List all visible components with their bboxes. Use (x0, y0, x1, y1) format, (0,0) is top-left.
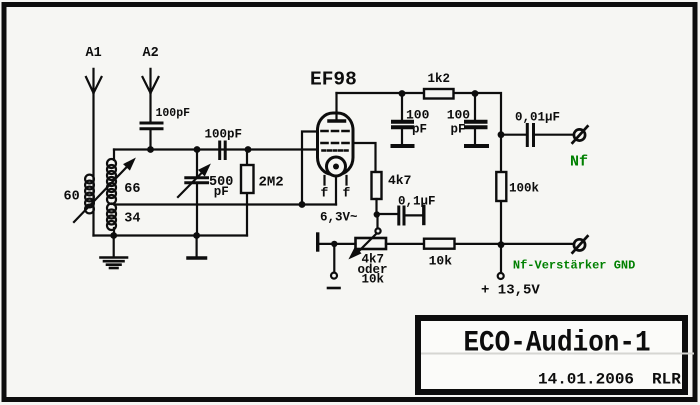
svg-text:100: 100 (406, 108, 430, 123)
wire grid bus (114, 148, 318, 150)
capacitor C6 0,1uF (377, 207, 424, 225)
tube anode (329, 93, 345, 121)
svg-text:66: 66 (124, 182, 140, 197)
wire HT down (501, 135, 526, 244)
variable capacitor C2 500pF (178, 150, 209, 236)
wire tap (114, 203, 336, 205)
svg-text:100k: 100k (509, 182, 540, 196)
svg-text:100pF: 100pF (156, 107, 191, 120)
svg-text:14.01.2006: 14.01.2006 (538, 371, 634, 389)
coil L1 winding 60 (85, 175, 94, 214)
svg-text:10k: 10k (429, 254, 453, 269)
resistor R3 4k7 screen (372, 172, 382, 214)
tube grid g3 (302, 131, 349, 205)
capacitor 100pF (A2 coupling) (141, 123, 162, 150)
coil L2 winding 66 (107, 150, 116, 205)
terminal +13,5V (498, 245, 504, 279)
tube V1 EF98 envelope (318, 113, 354, 175)
svg-text:pF: pF (412, 123, 427, 137)
svg-text:6,3V~: 6,3V~ (320, 211, 358, 225)
svg-text:A2: A2 (143, 46, 159, 61)
svg-text:34: 34 (124, 211, 140, 226)
chassis terminal left of pot (318, 234, 356, 250)
node g3/cathode (299, 201, 306, 208)
svg-text:f: f (321, 186, 329, 201)
svg-text:pF: pF (214, 185, 229, 199)
svg-text:+ 13,5V: + 13,5V (481, 283, 540, 299)
divider artifact (421, 353, 694, 355)
capacitor C3 100pF (series grid) (220, 142, 226, 159)
tube grid g2 (322, 143, 376, 172)
svg-text:Nf-Verstärker GND: Nf-Verstärker GND (513, 259, 635, 273)
wire bottom rail right (386, 243, 573, 245)
terminal Nf output (573, 126, 588, 143)
coil L2 winding 34 (107, 204, 116, 236)
potentiometer P1 (350, 234, 386, 258)
antenna A2 (143, 69, 159, 122)
svg-text:0,01µF: 0,01µF (515, 111, 560, 125)
resistor R1 2M2 (241, 150, 254, 236)
title block (418, 318, 694, 392)
tube filament pins f f (325, 176, 347, 185)
antenna A1 (86, 69, 102, 236)
svg-text:f: f (343, 186, 351, 201)
wire anode bus (337, 93, 502, 135)
resistor R2 1k2 (424, 89, 454, 99)
svg-text:EF98: EF98 (310, 69, 357, 91)
node C5/anode bus (472, 90, 479, 97)
junction dots (110, 90, 504, 248)
pot wiper lead (375, 214, 380, 234)
capacitor C7 0,01uF (527, 125, 573, 146)
svg-text:pF: pF (451, 123, 466, 137)
capacitor C4 100pF (anode 1) (393, 94, 413, 147)
node C2/ground rail (193, 232, 200, 239)
wire bottom-left rail (94, 234, 248, 236)
svg-text:Nf: Nf (570, 154, 588, 171)
tube cathode (327, 157, 346, 205)
resistor R5 100k (496, 172, 506, 201)
svg-text:1k2: 1k2 (428, 72, 451, 86)
svg-text:4k7: 4k7 (388, 173, 411, 188)
node C2/grid bus (194, 146, 201, 153)
svg-text:2M2: 2M2 (259, 175, 284, 191)
chassis terminal below C2 (188, 236, 206, 259)
node R3/C6 (374, 211, 380, 217)
svg-text:60: 60 (64, 190, 80, 205)
svg-text:A1: A1 (86, 46, 102, 61)
title text (463, 327, 650, 360)
terminal GND output (573, 236, 588, 253)
arrow variable coupling (74, 160, 134, 223)
svg-text:0,1µF: 0,1µF (398, 195, 436, 209)
svg-text:100pF: 100pF (205, 128, 243, 142)
node 2M2/grid bus (245, 146, 252, 153)
resistor R4 10k (424, 239, 455, 249)
capacitor C5 100pF (anode 2) (466, 94, 487, 147)
node C7/100k (498, 131, 505, 138)
node coil/ground rail (110, 232, 117, 239)
svg-text:RLR: RLR (652, 371, 681, 389)
battery minus terminal (328, 244, 340, 288)
node A2/grid bus (147, 146, 154, 153)
node 100k/rail (498, 241, 505, 248)
node C4/anode bus (399, 90, 406, 97)
tube grid g1 (323, 149, 349, 152)
svg-text:10k: 10k (362, 273, 385, 287)
ground (main) (101, 236, 128, 269)
svg-text:100: 100 (447, 108, 471, 123)
svg-text:ECO-Audion-1: ECO-Audion-1 (463, 327, 650, 360)
node minus branch (331, 241, 337, 247)
